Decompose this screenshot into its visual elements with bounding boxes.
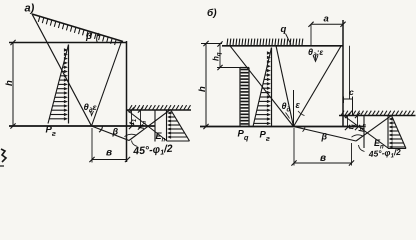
leader hook 45deg text fig b xyxy=(359,145,365,152)
leader arrow under theta label xyxy=(91,111,94,116)
active pressure diagram P_г outline fig b xyxy=(271,48,273,127)
pressure arrows P_г fig b xyxy=(254,51,271,125)
hatching P_q xyxy=(241,70,249,124)
wall front edge xyxy=(126,41,128,162)
angle mark under top label xyxy=(313,56,318,62)
dim h_p line xyxy=(140,110,142,127)
dimension line в fig b xyxy=(294,162,352,164)
scan artifact marks xyxy=(1,149,6,162)
svg-text:Рq: Рq xyxy=(238,129,249,143)
pressure arrows E_п fig b xyxy=(389,117,406,148)
front soil edge xyxy=(154,110,156,142)
passive slip rising line fig b xyxy=(356,116,391,141)
dimension line h xyxy=(12,43,14,127)
dimension line в xyxy=(92,159,128,161)
extension line Pq top xyxy=(217,67,243,69)
surcharge comb hatching q xyxy=(227,39,303,46)
svg-text:Еп: Еп xyxy=(156,131,166,144)
leader hook 45deg text xyxy=(132,141,138,147)
lower ground line xyxy=(127,109,191,111)
dimension line h fig b xyxy=(205,44,207,127)
passive slip from ground corner xyxy=(127,110,167,141)
angle arcs at heel fig b xyxy=(286,113,290,119)
svg-text:в: в xyxy=(106,148,112,159)
svg-text:q: q xyxy=(281,24,287,35)
svg-text:h: h xyxy=(4,80,15,86)
dim h ticks xyxy=(10,40,15,45)
line heel to wall top corner fig b xyxy=(294,46,342,127)
passive pressure diagram E_п outline xyxy=(166,110,168,142)
svg-text:в: в xyxy=(320,153,326,164)
dim t1 fig b xyxy=(347,116,349,128)
base line xyxy=(9,125,155,127)
svg-text:hq: hq xyxy=(212,52,223,61)
line heel to 45 vertex fig b xyxy=(294,127,357,142)
svg-text:β: β xyxy=(85,31,92,42)
extension line a left xyxy=(310,24,312,46)
svg-text:a: a xyxy=(324,14,329,25)
slip line 2 to heel xyxy=(276,46,294,127)
wall top line xyxy=(9,42,127,44)
auxiliary edge line xyxy=(349,46,351,99)
leader q xyxy=(286,34,292,45)
angle beta arc (top) xyxy=(97,34,99,43)
wall front edge fig b xyxy=(342,20,344,127)
angle beta arc heel fig b xyxy=(303,127,306,132)
front soil edge fig b xyxy=(363,116,365,149)
hatching under slope surface xyxy=(38,17,116,45)
backfill slope surface xyxy=(32,14,123,42)
slip line from apex to heel J xyxy=(32,14,92,126)
uniform pressure diagram P_q outline xyxy=(239,68,241,127)
pressure arrows P_г xyxy=(49,48,68,120)
vertical reference at heel xyxy=(293,90,295,127)
passive slip from ground corner fig b xyxy=(344,116,389,149)
angle beta arc (heel) xyxy=(99,126,103,132)
svg-text:t1: t1 xyxy=(127,119,138,125)
pressure arrows E_п xyxy=(167,111,187,138)
svg-text:ε: ε xyxy=(296,100,301,110)
passive pressure diagram E_п outline fig b xyxy=(387,116,389,149)
svg-text:θд: θд xyxy=(282,101,291,114)
line heel to 45 deg vertex xyxy=(92,126,130,141)
svg-text:c: c xyxy=(349,87,354,97)
surcharge line xyxy=(222,45,343,47)
active pressure diagram P_г outline xyxy=(68,45,70,124)
dimension c xyxy=(344,98,353,100)
dim t1 line xyxy=(131,110,133,127)
slip line 1 from load edge to heel xyxy=(230,46,294,127)
dimension line a xyxy=(311,23,343,25)
top extension line xyxy=(201,43,222,45)
dim в ticks xyxy=(89,157,94,162)
dim h_p fig b xyxy=(357,116,359,128)
svg-text:h: h xyxy=(197,86,208,92)
svg-text:45°-φ1/2: 45°-φ1/2 xyxy=(132,143,173,159)
45deg arc at vertex xyxy=(125,134,137,136)
svg-text:б): б) xyxy=(207,7,217,19)
45deg arc at vertex fig b xyxy=(352,135,363,137)
base line fig b xyxy=(200,126,364,128)
svg-text:а): а) xyxy=(25,3,35,15)
extension lines в fig b xyxy=(293,128,295,166)
line heel J to wall top right corner xyxy=(92,42,122,127)
hatching above lower ground fig b xyxy=(341,111,414,116)
passive slip rising line xyxy=(129,110,171,141)
svg-text:Рг: Рг xyxy=(260,130,270,144)
lower ground line fig b xyxy=(339,115,416,117)
step edge below c xyxy=(352,99,354,116)
hatching above lower ground xyxy=(129,105,191,110)
dimension line hq xyxy=(219,44,221,68)
svg-text:hп: hп xyxy=(357,123,368,132)
